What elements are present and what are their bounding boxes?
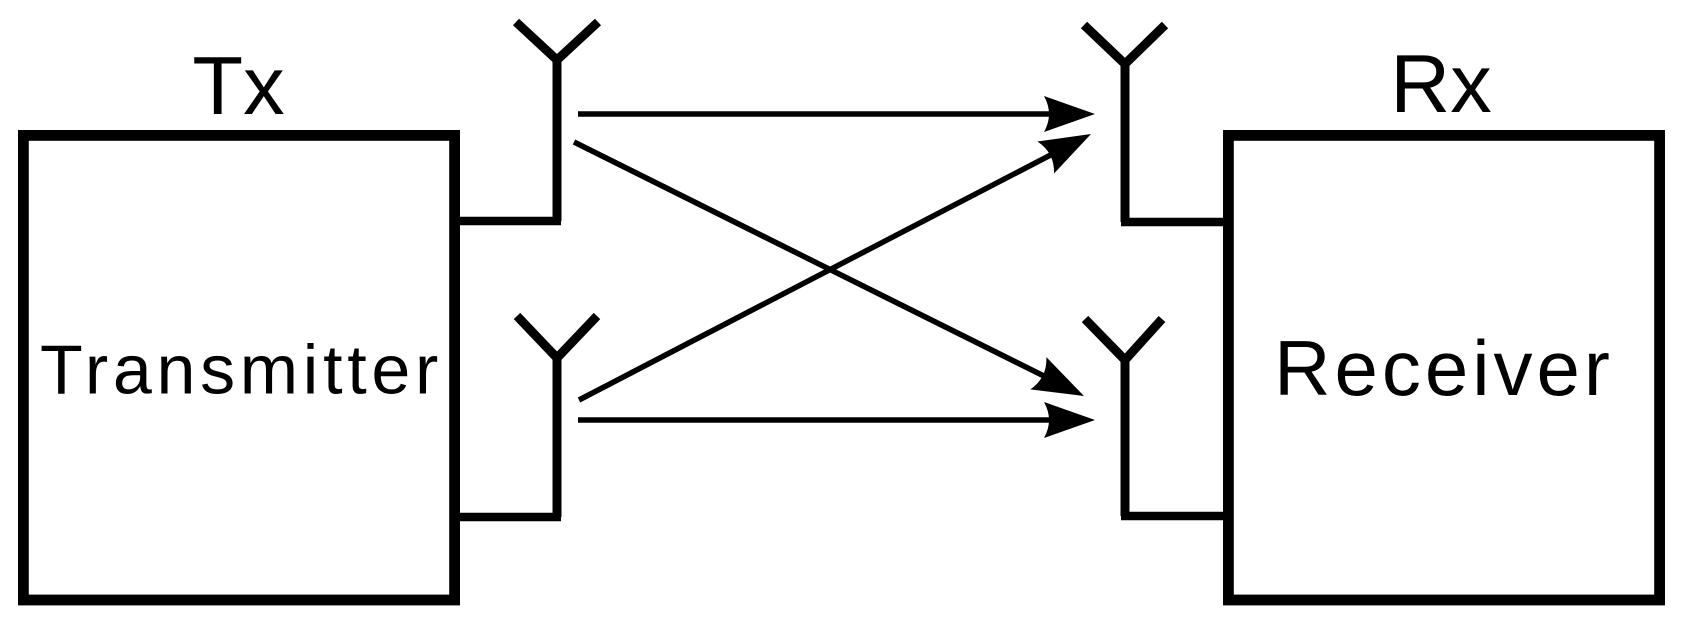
wire Rx antenna 2 feed — [1121, 512, 1232, 521]
svg-text:Tx: Tx — [192, 39, 284, 132]
wire channel path h11 arrow — [578, 96, 1095, 132]
wire channel path h22 arrow — [578, 402, 1095, 438]
receiver box — [1228, 135, 1659, 600]
wire Rx antenna 1 feed — [1121, 218, 1232, 227]
wire Tx antenna 1 feed — [452, 217, 561, 226]
wire Tx antenna 2 feed — [452, 513, 561, 522]
antenna Tx2 — [517, 316, 597, 517]
antenna Rx1 — [1084, 25, 1165, 222]
antenna Tx1 — [516, 22, 598, 221]
transmitter box — [23, 135, 454, 600]
wire channel path h21 arrow (Tx1 to Rx2) — [574, 142, 1092, 412]
antenna Rx2 — [1085, 319, 1162, 516]
svg-text:Receiver: Receiver — [1274, 324, 1614, 412]
svg-text:Transmitter: Transmitter — [40, 331, 443, 409]
wire channel path h12 arrow (Tx2 to Rx1) — [579, 118, 1099, 400]
svg-text:Rx: Rx — [1390, 37, 1491, 130]
